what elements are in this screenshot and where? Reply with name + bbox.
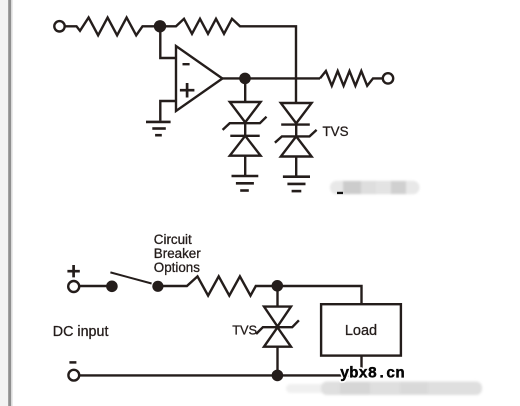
svg-text:Breaker: Breaker [154,246,201,261]
svg-text:DC input: DC input [53,324,109,340]
svg-text:Load: Load [345,323,377,339]
svg-text:Options: Options [154,260,200,275]
svg-text:Circuit: Circuit [154,232,192,247]
svg-text:ybx8.cn: ybx8.cn [340,364,405,382]
svg-text:TVS: TVS [232,323,257,338]
svg-text:TVS: TVS [323,124,349,139]
